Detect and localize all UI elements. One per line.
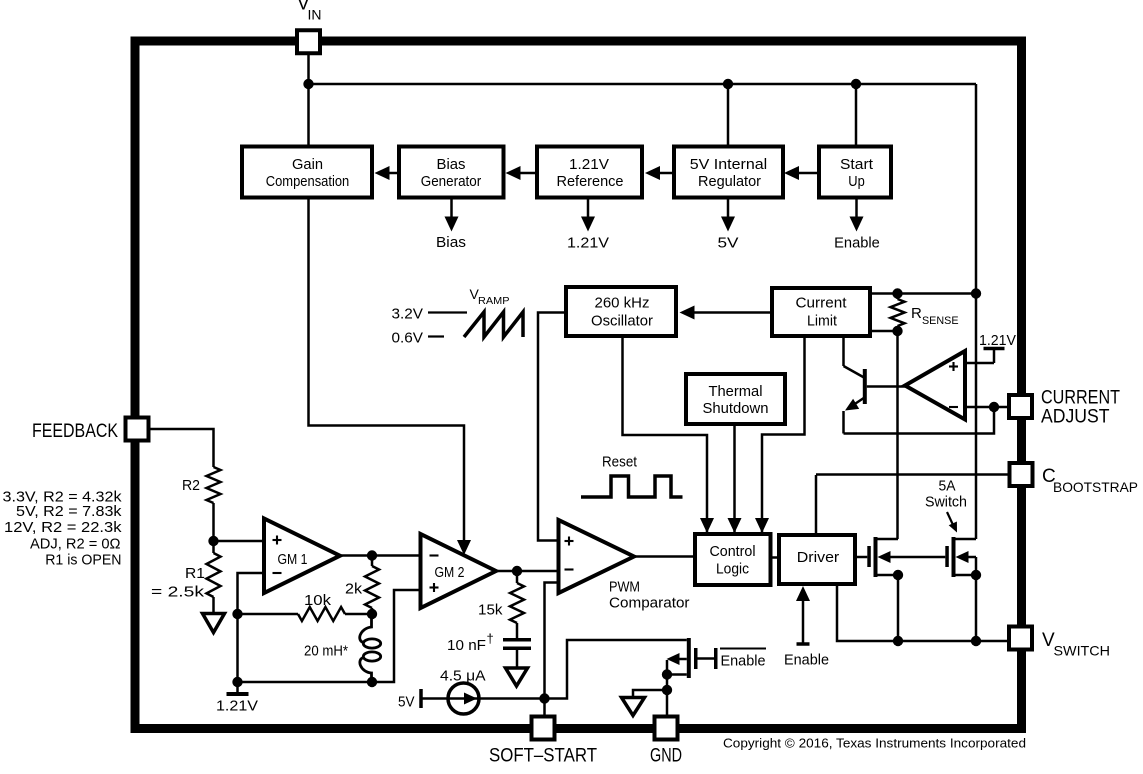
- svg-text:12V, R2 = 22.3k: 12V, R2 = 22.3k: [4, 519, 122, 536]
- resistor R1: [212, 541, 215, 553]
- ground 1.21V reference: [236, 682, 239, 694]
- node VIN bus junction: [303, 79, 313, 89]
- wire soft start to pin: [543, 699, 546, 717]
- svg-text:Generator: Generator: [421, 174, 482, 190]
- node GM1 feedback node: [232, 609, 242, 619]
- svg-text:5V: 5V: [398, 694, 415, 711]
- pin VSWITCH square: [1009, 627, 1032, 650]
- terminal R1 open triangle: [203, 614, 225, 633]
- transistor Q1 base bar: [863, 369, 867, 404]
- wire 10k to 2k node: [345, 613, 372, 616]
- node M1 to VSWITCH rail: [893, 636, 903, 646]
- svg-text:Reset: Reset: [602, 455, 637, 471]
- pin FEEDBACK square: [126, 418, 149, 441]
- block 5V Internal Regulator: [674, 147, 783, 198]
- svg-text:CURRENT: CURRENT: [1041, 388, 1120, 409]
- svg-text:Bias: Bias: [436, 235, 466, 251]
- svg-text:Copyright © 2016, Texas Instru: Copyright © 2016, Texas Instruments Inco…: [723, 736, 1026, 751]
- wire M2 source: [956, 574, 977, 577]
- wire to 10k resistor: [238, 613, 299, 616]
- pin VIN square: [297, 30, 320, 53]
- svg-text:5V, R2 = 7.83k: 5V, R2 = 7.83k: [16, 503, 122, 520]
- terminal M3 gate tick: [714, 648, 718, 669]
- wire Q1 emitter to current adjust: [844, 407, 995, 434]
- node bus to Start Up: [851, 79, 861, 89]
- op-amp GM1: [264, 519, 340, 594]
- svg-text:5V Internal: 5V Internal: [690, 157, 768, 173]
- wire arrow Reference to Bias Generator: [520, 172, 537, 175]
- node bus to 5V regulator: [723, 79, 733, 89]
- svg-text:1.21V: 1.21V: [567, 236, 609, 252]
- wire Driver to VSWITCH rail: [837, 584, 1009, 641]
- block Current Limit: [772, 288, 870, 336]
- wire bus stub to Start Up: [855, 84, 858, 147]
- wire arrow Start Up to Regulator: [798, 172, 819, 175]
- svg-text:PWM: PWM: [609, 580, 640, 596]
- transistor M3 gate bar: [694, 648, 698, 669]
- svg-text:RAMP: RAMP: [478, 295, 510, 307]
- arrow Enable output: [855, 198, 858, 220]
- svg-text:1.21V: 1.21V: [569, 157, 609, 173]
- block Thermal Shutdown: [686, 374, 785, 424]
- svg-text:SENSE: SENSE: [922, 315, 959, 327]
- arrow current limit into Control Logic: [755, 518, 769, 533]
- wire thermal to Control Logic: [733, 424, 736, 532]
- wire oscillator to PWM comparator plus: [538, 313, 566, 541]
- wire oscillator to Control Logic: [623, 336, 708, 532]
- node M2 source: [971, 570, 981, 580]
- svg-text:Enable: Enable: [784, 653, 829, 669]
- wire 0.6V level tick: [428, 335, 444, 337]
- wire Control Logic to Driver: [771, 556, 780, 559]
- wire VIN top bus: [309, 83, 977, 86]
- wire soft start to PWM: [545, 583, 559, 699]
- svg-text:BOOTSTRAP: BOOTSTRAP: [1053, 479, 1138, 495]
- block Gain Compensation: [242, 147, 372, 198]
- arrow M3 body: [667, 653, 680, 665]
- transistor M2 gate bar: [945, 546, 949, 567]
- node GM1 output: [367, 550, 377, 560]
- wire GM1 output: [340, 554, 421, 557]
- supply 1.21V tick: [984, 347, 1005, 351]
- wire Q1 base to current amp output: [867, 385, 906, 388]
- svg-text:R2: R2: [182, 478, 200, 494]
- svg-text:†: †: [487, 631, 494, 646]
- svg-text:15k: 15k: [478, 603, 503, 619]
- svg-text:Compensation: Compensation: [266, 174, 350, 190]
- ground triangle near GND: [622, 698, 645, 716]
- resistor 2k: [371, 556, 374, 567]
- svg-text:Limit: Limit: [807, 314, 837, 330]
- svg-text:GND: GND: [650, 746, 682, 767]
- svg-text:Current: Current: [796, 296, 847, 312]
- arrow 1.21V output: [587, 198, 590, 220]
- op-amp U2 current amplifier: [905, 351, 965, 420]
- svg-text:0.6V: 0.6V: [392, 330, 424, 347]
- pin CBOOTSTRAP square: [1010, 463, 1033, 486]
- svg-text:2k: 2k: [345, 582, 363, 598]
- wire M2 drain: [956, 538, 977, 541]
- pin SOFT-START square: [532, 717, 555, 740]
- svg-text:Enable: Enable: [834, 236, 880, 252]
- wire tap to GM1 plus: [214, 540, 265, 543]
- svg-text:Regulator: Regulator: [698, 174, 761, 190]
- node 2k bottom: [367, 609, 377, 619]
- wire U2 plus input to 1.21V: [965, 362, 994, 365]
- svg-text:Logic: Logic: [716, 562, 749, 578]
- svg-text:Bias: Bias: [437, 157, 466, 173]
- svg-text:GM 1: GM 1: [278, 552, 308, 568]
- wire current source to soft start node: [479, 697, 545, 700]
- resistor 10k: [298, 607, 345, 621]
- wire M3 gate: [698, 657, 715, 660]
- svg-text:Comparator: Comparator: [609, 596, 690, 612]
- svg-text:10 nF: 10 nF: [447, 638, 486, 654]
- svg-text:1.21V: 1.21V: [216, 698, 258, 715]
- wire RSENSE down to switch drain: [896, 331, 899, 539]
- node M3 source: [662, 669, 672, 679]
- block Bias Generator: [399, 147, 504, 198]
- node GM1 minus bottom: [232, 677, 242, 687]
- wire Current Limit to RSENSE bottom: [870, 330, 898, 333]
- wire to ground triangle: [633, 690, 667, 698]
- wire 3.2V level tick: [428, 311, 467, 313]
- svg-text:Control: Control: [710, 544, 756, 560]
- wire bottom 1.21V rail: [238, 681, 373, 684]
- wire FEEDBACK to R2: [149, 429, 214, 467]
- arrow into GM2 top: [457, 540, 471, 555]
- wire CBOOTSTRAP pin wire: [816, 473, 1010, 476]
- wire PWM output to Control Logic: [634, 555, 695, 558]
- transistor M1 channel bar: [874, 537, 878, 577]
- arrow thermal into Control Logic: [728, 518, 742, 533]
- svg-text:Up: Up: [848, 174, 865, 190]
- transistor M1 gate bar: [867, 546, 871, 567]
- wire arrow Bias Generator to Gain Compensation: [389, 172, 399, 175]
- wire U2 minus to CURRENT ADJUST pin: [965, 406, 1009, 409]
- transistor M3 channel bar: [687, 638, 691, 678]
- IC boundary border: [135, 41, 1022, 729]
- svg-text:IN: IN: [308, 7, 322, 23]
- wire Driver to switch gates: [855, 556, 867, 559]
- svg-text:Shutdown: Shutdown: [703, 401, 769, 417]
- arrow Enable into Driver: [802, 600, 805, 644]
- svg-text:SOFT–START: SOFT–START: [489, 746, 597, 767]
- block Control Logic: [695, 534, 771, 585]
- transistor Q1 collector: [842, 336, 845, 366]
- transistor M2 channel bar: [952, 537, 956, 577]
- resistor 15k: [516, 571, 519, 583]
- pin GND square: [655, 717, 678, 740]
- transistor Q1 emitter: [848, 398, 865, 409]
- svg-text:Switch: Switch: [925, 495, 967, 511]
- svg-text:ADJ, R2 = 0Ω: ADJ, R2 = 0Ω: [30, 536, 121, 553]
- op-amp GM2: [421, 534, 497, 608]
- wire Current Limit to RSENSE top: [870, 292, 976, 295]
- resistor RSENSE: [891, 299, 905, 326]
- svg-text:20 mH*: 20 mH*: [304, 644, 348, 660]
- pin CURRENT ADJUST square: [1009, 395, 1032, 418]
- terminal cap ground triangle: [506, 668, 528, 686]
- wire Gain Compensation to GM2: [309, 198, 465, 543]
- block Start Up: [819, 147, 891, 198]
- svg-text:R: R: [911, 305, 922, 322]
- wire inductor node to GM2 plus: [372, 590, 421, 682]
- capacitor 10nF: [503, 638, 531, 642]
- svg-text:Enable: Enable: [721, 654, 766, 670]
- svg-text:Driver: Driver: [797, 550, 840, 566]
- waveform Reset pulses: [581, 476, 683, 497]
- wire arrow Current Limit to oscillator: [693, 311, 772, 314]
- wire bus right drop to RSENSE and switch drain: [975, 84, 978, 539]
- wire bus stub to 5V Internal Regulator: [727, 84, 730, 147]
- current source I1: [421, 697, 448, 700]
- block 1.21V Reference: [537, 147, 642, 198]
- node divider tap: [208, 536, 218, 546]
- wire M1 source down: [897, 575, 900, 641]
- resistor R2: [207, 467, 221, 503]
- svg-text:10k: 10k: [304, 593, 332, 609]
- wire M1 source: [878, 574, 899, 577]
- node GM2 output: [512, 566, 522, 576]
- inductor 20mH: [360, 615, 372, 643]
- svg-text:1.21V: 1.21V: [979, 332, 1016, 349]
- arrow M1 body: [878, 551, 891, 563]
- node current adjust: [989, 402, 999, 412]
- node inductor bottom: [367, 677, 377, 687]
- op-amp PWM comparator: [559, 520, 635, 593]
- arrow M2 body: [956, 551, 969, 563]
- arrow 5V output: [727, 198, 730, 220]
- block Driver: [779, 535, 855, 584]
- node M1 source: [893, 570, 903, 580]
- wire M2 source down: [975, 575, 978, 641]
- node RSENSE top: [892, 288, 902, 298]
- node soft start: [539, 693, 549, 703]
- svg-text:Reference: Reference: [557, 174, 624, 190]
- node M2 to VSWITCH rail: [971, 636, 981, 646]
- svg-text:260 kHz: 260 kHz: [595, 296, 650, 312]
- svg-text:5V: 5V: [718, 236, 739, 252]
- node RSENSE bottom: [892, 326, 902, 336]
- svg-text:3.2V: 3.2V: [392, 306, 424, 323]
- wire soft start to enable FET drain: [545, 640, 687, 699]
- wire M3 source to GND pin: [666, 675, 669, 717]
- arrow oscillator into Control Logic: [700, 518, 714, 533]
- block 260 kHz Oscillator: [566, 287, 676, 336]
- svg-text:ADJUST: ADJUST: [1041, 407, 1110, 428]
- svg-text:R1 is OPEN: R1 is OPEN: [45, 552, 121, 569]
- wire bootstrap to Driver top: [815, 475, 818, 535]
- svg-text:R1: R1: [185, 566, 205, 582]
- supply 5V tick: [419, 689, 423, 708]
- svg-text:Oscillator: Oscillator: [591, 314, 653, 330]
- svg-text:SWITCH: SWITCH: [1054, 643, 1111, 659]
- wire VIN vertical into Gain Compensation: [307, 53, 310, 147]
- arrow Bias output: [450, 198, 453, 220]
- svg-text:Start: Start: [840, 157, 873, 173]
- wire GM2 output: [496, 570, 559, 573]
- wire M1 drain: [878, 538, 899, 541]
- waveform Vramp sawtooth: [464, 312, 523, 337]
- wire GM1 minus input: [238, 573, 265, 682]
- wire Current Limit to Control Logic: [762, 336, 805, 532]
- wire arrow Regulator to Reference: [660, 172, 674, 175]
- arrow 5A switch pointer: [947, 512, 954, 527]
- svg-text:Thermal: Thermal: [709, 384, 763, 400]
- svg-text:= 2.5k: = 2.5k: [151, 585, 205, 601]
- svg-text:Gain: Gain: [292, 157, 323, 173]
- svg-text:5A: 5A: [939, 479, 956, 495]
- svg-text:FEEDBACK: FEEDBACK: [32, 421, 118, 442]
- wire M3 source: [667, 673, 687, 676]
- node bus drop at RSENSE: [971, 288, 981, 298]
- svg-text:GM 2: GM 2: [435, 565, 465, 581]
- node M3 ground tap: [662, 685, 672, 695]
